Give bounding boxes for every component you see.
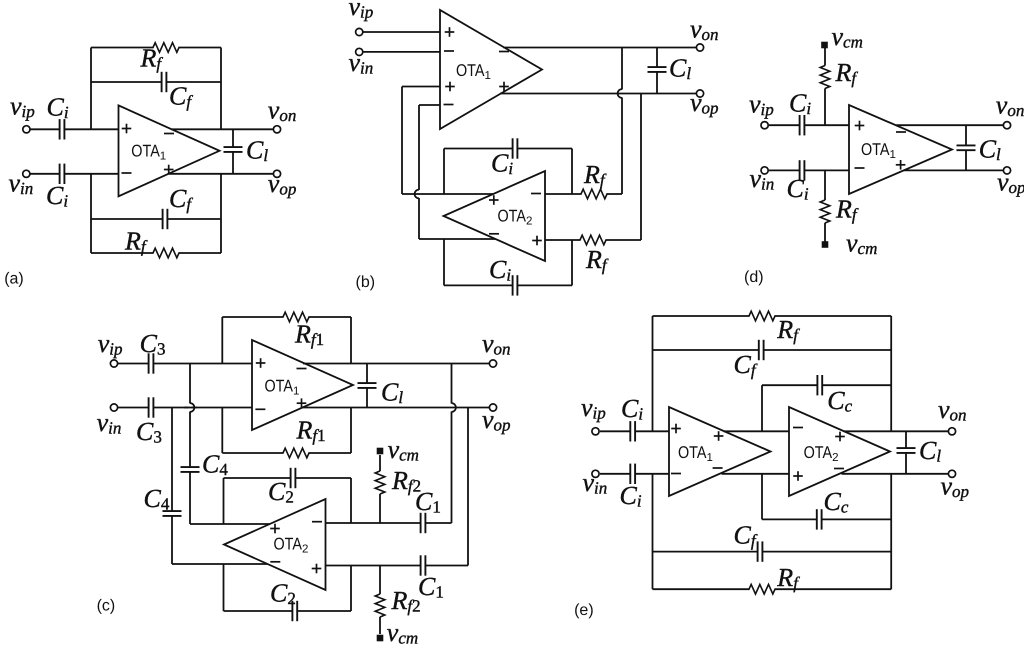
svg-text:(e): (e) bbox=[574, 602, 594, 619]
svg-text:vip: vip bbox=[349, 0, 374, 22]
svg-text:(d): (d) bbox=[744, 269, 764, 286]
svg-text:(c): (c) bbox=[97, 598, 116, 615]
svg-text:(a): (a) bbox=[4, 271, 24, 288]
svg-text:(b): (b) bbox=[356, 274, 376, 291]
